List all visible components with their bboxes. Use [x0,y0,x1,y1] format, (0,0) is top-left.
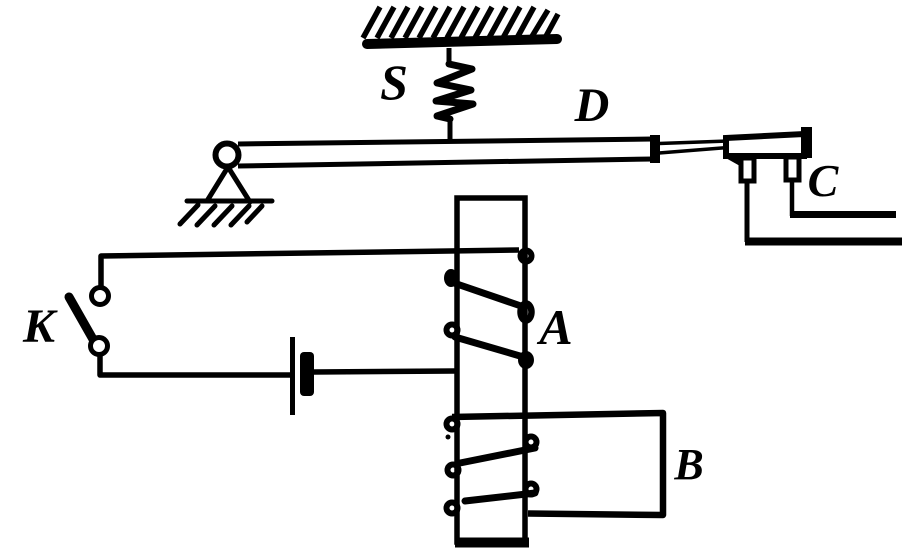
pivot circle [216,144,239,167]
secondary winding diagonal 1 [460,448,535,463]
coil A core bottom cap [455,538,529,548]
ink dot [446,435,451,440]
contact block right cap [801,127,812,158]
svg-text:S: S [380,54,408,110]
switch top circle [92,288,109,305]
primary winding diagonal 2 [455,337,520,356]
primary winding right blob 3 [518,351,534,369]
coil A core [457,198,525,542]
primary winding turn 1 loop [521,251,532,262]
wire from left contact vertical [745,180,750,242]
secondary winding diagonal 2 [465,493,535,501]
switch bottom circle [91,338,108,355]
spring hanger wire [447,48,452,66]
svg-text:D: D [574,79,610,132]
ground line [187,199,272,204]
thin rod to contact block [659,141,728,144]
spring lower link [448,117,453,141]
svg-text:B: B [673,440,703,489]
wire from left contact horizontal [745,238,902,246]
contact block [726,134,804,156]
secondary winding left loop 1 [447,419,458,430]
svg-text:A: A [536,299,572,355]
ceiling bar [367,39,557,44]
contact screw left [741,158,754,181]
wire from right contact vertical [790,180,795,216]
primary winding right loop 2 [521,304,532,321]
ground hatching [180,205,262,225]
beam end cap [650,135,660,163]
wire from switch to battery [100,356,290,375]
primary winding left loop 2 [447,325,458,336]
lever beam D [238,139,653,144]
svg-text:K: K [22,300,58,353]
wire from right contact horizontal [790,211,896,218]
svg-text:C: C [808,155,840,206]
switch K top terminal wire [101,250,519,287]
secondary winding left loop 3 [447,503,458,514]
pivot support triangle [207,167,250,202]
secondary winding right loop 2 [526,484,537,495]
battery short plate [300,352,314,396]
secondary winding left loop 2 [448,465,459,476]
secondary winding right loop 1 [526,437,537,448]
secondary coil B box [452,413,663,515]
ceiling hatching [363,7,558,38]
contact block left wedge [724,157,740,166]
wire from battery to coil A [314,371,455,372]
contact screw right [786,157,799,180]
primary winding diagonal 1 [454,283,521,306]
switch blade [69,297,94,341]
battery long plate [290,337,295,415]
primary winding left blob 1 [444,269,458,287]
spring S [436,64,473,119]
